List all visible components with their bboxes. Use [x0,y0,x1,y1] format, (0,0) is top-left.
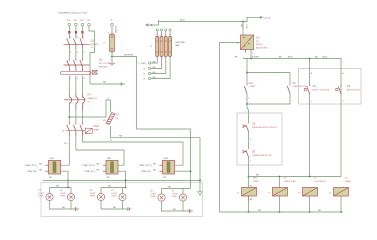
earth stub under F1 [111,57,113,63]
coil KM1 bottom pin [248,196,250,201]
lamp E2 [46,193,53,200]
wire block2 bottom pin to bus [118,171,126,187]
svg-text:PWRNE: PWRNE [114,26,116,34]
svg-text:COU CIRCLE: COU CIRCLE [314,181,326,183]
svg-text:THERMOSTAT NO TM: THERMOSTAT NO TM [252,154,272,157]
svg-text:PWR: PWR [245,25,247,30]
wire PWA_IN3 stub [159,170,162,172]
svg-text:N: N [88,18,90,22]
wire feed drop to G2 [242,22,244,36]
lamp E6 [158,194,165,201]
svg-text:FUSIBLE: FUSIBLE [91,44,100,46]
wire control feed long run [159,17,262,21]
earth bar symbol [109,63,115,65]
svg-text:AURO TIRCLR: AURO TIRCLR [347,88,360,91]
terminal block X1 pin circles top [156,29,158,31]
wire L1 KM1 to block1 [61,136,70,165]
svg-text:NEUPWR: NEUPWR [124,55,134,57]
junction dot S2 branch on link [248,176,250,178]
arrester F2 body [106,112,115,124]
wire L1 F3 to KM1 [68,110,70,122]
junction dot coil1 bottom [248,211,250,213]
svg-text:2M: 2M [163,177,166,179]
svg-text:A PWR: A PWR [252,56,259,59]
relay coil KM1 [242,188,257,197]
svg-text:LIGHT: LIGHT [60,193,66,195]
relay coil K7 [273,188,288,197]
wire coil K6 to bottom rail [340,196,342,212]
wire L3 KM1 to block3 [82,136,183,165]
svg-text:START BUTTON: START BUTTON [293,85,308,88]
enclosure box lamp panel [41,183,203,217]
box S3 S4 group outline [299,69,362,105]
wire neutral feed to block3 bottom pin [137,129,191,189]
wire PWA_OUT2 stub [103,164,106,166]
svg-text:PRESSURE SW NO PSI 100: PRESSURE SW NO PSI 100 [252,127,277,129]
lamp E3 stub top [70,188,72,194]
svg-text:KM1: KM1 [250,83,254,85]
wire S5 exit to link [248,158,250,177]
svg-text:HIGH: HIGH [60,196,65,198]
thermal overload F3 element 2 [76,94,78,110]
box S2 group outline [237,113,282,165]
PE bus left section [43,179,200,181]
svg-text:PWA_OUT3 [: PWA_OUT3 [ [139,164,152,167]
svg-text:X1: X1 [150,46,152,48]
lamp E5 stub top [122,188,124,194]
lamp group2 bottom wire [101,201,128,209]
lamp E5 [119,193,126,200]
svg-text:2M: 2M [107,177,110,179]
actuator glyph S5 [242,151,244,153]
thermal overload F3 link [64,99,86,101]
actuator glyph S2 [242,125,244,127]
actuator circle S4 [336,88,338,90]
wire X1 gang1 to terminal row 1 [151,57,157,64]
junction dot S1 loop bottom [246,103,248,105]
off-page arrow control feed [260,16,263,19]
contact S1 [287,85,290,95]
wire N to neutral-bar arrow [90,83,119,85]
svg-text:S4: S4 [347,84,351,88]
wire S2 to S5 [248,133,250,149]
svg-text:START: START [250,85,257,88]
terminal row 1 circle [148,62,150,64]
junction dot S1 loop top [246,72,248,74]
relay coil K6 [334,188,349,197]
relay block KM3 body [163,160,175,174]
wire S3 drop [309,59,311,86]
relay block KM1 body [49,160,61,174]
wire arrester to PE run [111,126,201,192]
svg-text:E2: E2 [39,190,41,192]
svg-text:BAR: BAR [176,44,181,47]
switch Q2 mechanical link [64,64,90,66]
lamp group3 top wire [162,188,191,190]
wire L2 KM1 to block2 [76,136,124,165]
terminal row 2 circle [148,67,150,69]
contactor KM1 pole 3 [80,122,83,136]
svg-text:S1: S1 [293,81,297,85]
svg-text:AURO COU BRCLE: AURO COU BRCLE [313,88,331,91]
svg-text:LIGHT: LIGHT [112,193,118,195]
wire L1 Q1 to Q2 [68,49,70,58]
contact S2 pressure switch [244,123,248,133]
svg-text:HIGH: HIGH [39,196,44,198]
coil KM1 feed pin [248,177,250,188]
terminal T [111,23,114,26]
svg-text:HIGH: HIGH [90,196,95,198]
breaker Q1 pole 3 [80,34,83,49]
svg-text:S5: S5 [252,150,256,154]
switch Q2 pole 1 [67,58,70,71]
terminal block X1 gang 1 body [156,37,159,57]
actuator circle S3 [304,88,306,90]
lamp group3 bottom wire [162,201,190,211]
feed arrow into fuse block [146,20,159,26]
junction dot block1 riser on bus [67,180,69,182]
svg-text:K1: K1 [62,131,64,133]
svg-text:LIGHT: LIGHT [90,193,96,195]
svg-text:ASM 380V: ASM 380V [99,66,109,69]
contactor KM1 coil symbol box [85,128,92,133]
svg-text:E6: E6 [151,191,153,193]
wire F1 to junction [111,52,113,57]
earth arrow PE drop [198,192,202,196]
earth symbol group1 [76,207,79,211]
svg-text:L_PWR: L_PWR [139,63,147,65]
svg-text:KM1: KM1 [253,178,257,180]
terminal L3 [81,23,84,26]
wire G2 left pin to left return rail [220,43,241,213]
wire S1 loop top [247,73,290,85]
svg-text:START: START [253,180,260,183]
lamp E4 [97,193,104,200]
svg-text:PWA_IN2 [: PWA_IN2 [ [85,170,96,173]
relay block KM2 body [106,160,118,174]
wire L3 drop to fuse clip [81,26,83,31]
terminal block X1 top pin stubs [157,31,170,36]
svg-text:TIMER: TIMER [345,181,352,183]
svg-text:KM1: KM1 [94,124,100,128]
svg-text:BACKDOWN: BACKDOWN [256,46,268,49]
svg-text:G2: G2 [256,36,260,40]
svg-text:HIGH: HIGH [112,196,117,198]
wire neutral run to control drop [112,57,137,130]
wire L1 Q2 to F3 [68,76,70,95]
wire S3 to link [309,95,311,177]
wire PWA_IN2 stub [103,170,106,172]
switch Q2 pole 3 [80,58,83,71]
thermal overload F3 element 3 [82,94,84,110]
junction dot coil3 on link [309,176,311,178]
svg-text:LIGHT: LIGHT [39,193,45,195]
wire T to fuse F1 [111,26,113,34]
svg-text:S2: S2 [252,122,256,126]
fuse F1 body [110,34,115,52]
breaker Q1 pole 2 [73,34,76,49]
fuse clip L3 [81,31,83,34]
terminal block X1 inner marks [156,41,171,52]
earth symbol group2 [128,207,131,211]
wire block3 bottom pin to neutral drop [175,170,191,172]
wire N jog to right of clips [89,26,95,84]
svg-text:TIMEOUT AB: TIMEOUT AB [284,180,296,183]
terminal row 3 circle [148,72,150,74]
contact S5 thermostat [244,148,248,158]
wire L3 Q2 to F3 [81,76,83,95]
lamp E3 [67,193,74,200]
earth symbol group3 [190,209,193,213]
junction dot feed drop [242,21,244,23]
junction dot coil4 bottom [340,211,342,213]
wire KM1 aux branch upper [246,59,248,85]
svg-text:SET 12P-UP: SET 12P-UP [99,63,111,65]
junction dot group2 top [125,187,127,189]
svg-text:PWA_OUT2 [: PWA_OUT2 [ [83,164,96,167]
lamp E7 stub top [182,189,184,194]
svg-text:K7: K7 [284,178,286,180]
wire coil K7 to bottom rail [279,196,281,212]
junction dot coil3 bottom [309,211,311,213]
wire L2 drop to fuse clip [75,26,77,31]
breaker Q1 mechanical link [64,44,90,46]
terminal L1 [68,23,71,26]
wire coil K5 to bottom rail [309,196,311,212]
svg-text:E3: E3 [60,190,62,192]
power supply G2 body [241,35,254,50]
svg-text:E4: E4 [90,190,92,192]
wire KM1 aux lower [246,95,248,105]
lamp E2 stub top [49,188,51,194]
svg-text:2M: 2M [49,177,52,179]
switch Q2 pole 2 [73,58,76,71]
wire X1 gang3 to terminal row 3 [151,57,166,74]
wire L2 Q1 to Q2 [75,49,77,58]
svg-text:Q2: Q2 [99,58,103,62]
svg-text:PWA_IN3 [: PWA_IN3 [ [141,170,152,173]
wire L2 Q2 to F3 [75,76,77,95]
svg-text:HIGH: HIGH [151,196,156,198]
contactor KM1 pole 2 [73,122,76,136]
junction dot arrester tap on L1 [68,116,70,118]
svg-text:K6: K6 [345,178,347,180]
lamp E7 [179,194,186,201]
wire PWA_OUT3 stub [159,164,162,166]
wire X1 gang4 to terminal row 4 [151,57,170,79]
junction dot G2 on rail [250,58,252,60]
wire PWA_OUT1 stub [45,164,48,166]
control bottom rail [220,211,344,213]
svg-text:Q1: Q1 [91,39,95,43]
wire L3 F3 to KM1 [81,110,83,122]
svg-text:PWA_IN1 [: PWA_IN1 [ [27,170,38,173]
control rail top [243,59,341,177]
terminal block X1 gang 2 body [160,37,163,57]
wire coil KM1 to bottom rail [248,201,250,212]
contactor KM1 link [66,130,85,132]
svg-text:SBMKS 2P: SBMKS 2P [88,98,98,100]
switch Q2 body outline [61,72,92,75]
contact S3 selector [307,85,310,95]
lamp E4 stub top [100,188,102,194]
svg-text:E5: E5 [112,190,114,192]
lamp group2 top wire [101,187,126,189]
wire block1 bottom pin to bus [61,171,69,187]
pin stub G2 bottom left [245,50,247,53]
terminal block X1 gang 4 body [169,37,172,57]
wire L2 F3 to KM1 [75,110,77,122]
terminal L2 [75,23,78,26]
lamp group1 top wire [50,187,72,189]
wire S1 loop bottom [247,95,290,105]
terminal block X1 gang 3 body [164,37,167,57]
junction dot coil2 on link [279,176,281,178]
junction dot coil2 bottom [279,211,281,213]
wire L1 drop to fuse clip [68,26,70,31]
fuse clip L2 [75,31,77,34]
lamp E6 stub top [161,189,163,194]
wire PWA_IN1 stub [45,170,48,172]
coil K7 feed pin [279,177,281,188]
breaker Q1 pole 1 [67,34,70,49]
contactor KM1 pole 1 [67,122,70,136]
fuse clip L1 [68,31,70,34]
svg-text:LIGHT: LIGHT [151,193,157,195]
svg-text:F1: F1 [104,43,106,45]
junction dot PE bus end [199,180,201,182]
wire G2 bottom pin to control rail [250,50,252,59]
svg-text:K5: K5 [314,178,316,180]
junction dot under F1 [111,56,113,58]
svg-text:S3: S3 [313,84,317,88]
lamp group1 bottom wire [50,201,76,209]
svg-text:480/PS: 480/PS [256,44,263,46]
junction dot block2 riser on bus [125,180,127,182]
relay coil K5 [303,188,318,197]
svg-text:PWA_OUT1 [: PWA_OUT1 [ [25,164,38,167]
svg-text:START: START [94,129,101,132]
svg-text:LIGHT: LIGHT [172,193,178,195]
coil link wire [249,176,342,178]
svg-text:NEUTRAL: NEUTRAL [176,41,187,44]
wire L3 Q1 to Q2 [81,49,83,58]
wire X1 gang2 to terminal row 2 [151,57,162,69]
svg-text:USA (EBPVV) Subpanel 2 13m: USA (EBPVV) Subpanel 2 13m [59,12,88,15]
wire into S2 box [247,104,249,123]
contact S4 selector [338,85,341,95]
feed arrow dot [151,24,153,26]
svg-text:HIGH: HIGH [172,196,177,198]
wire arrester tap [69,100,110,117]
thermal overload F3 element 1 [69,94,71,110]
off-page arrow N bar [119,83,123,86]
terminal row 4 circle [148,77,150,79]
svg-text:CLK_A: CLK_A [263,16,270,19]
contact KM1 aux [244,85,247,95]
switch Q2 actuator box [92,70,97,74]
junction dot S3 drop on rail [309,58,311,60]
junction dot block3 pin tap [190,170,192,172]
junction dot group1 top [67,187,69,189]
svg-text:E7: E7 [172,191,174,193]
terminal N [88,23,91,26]
